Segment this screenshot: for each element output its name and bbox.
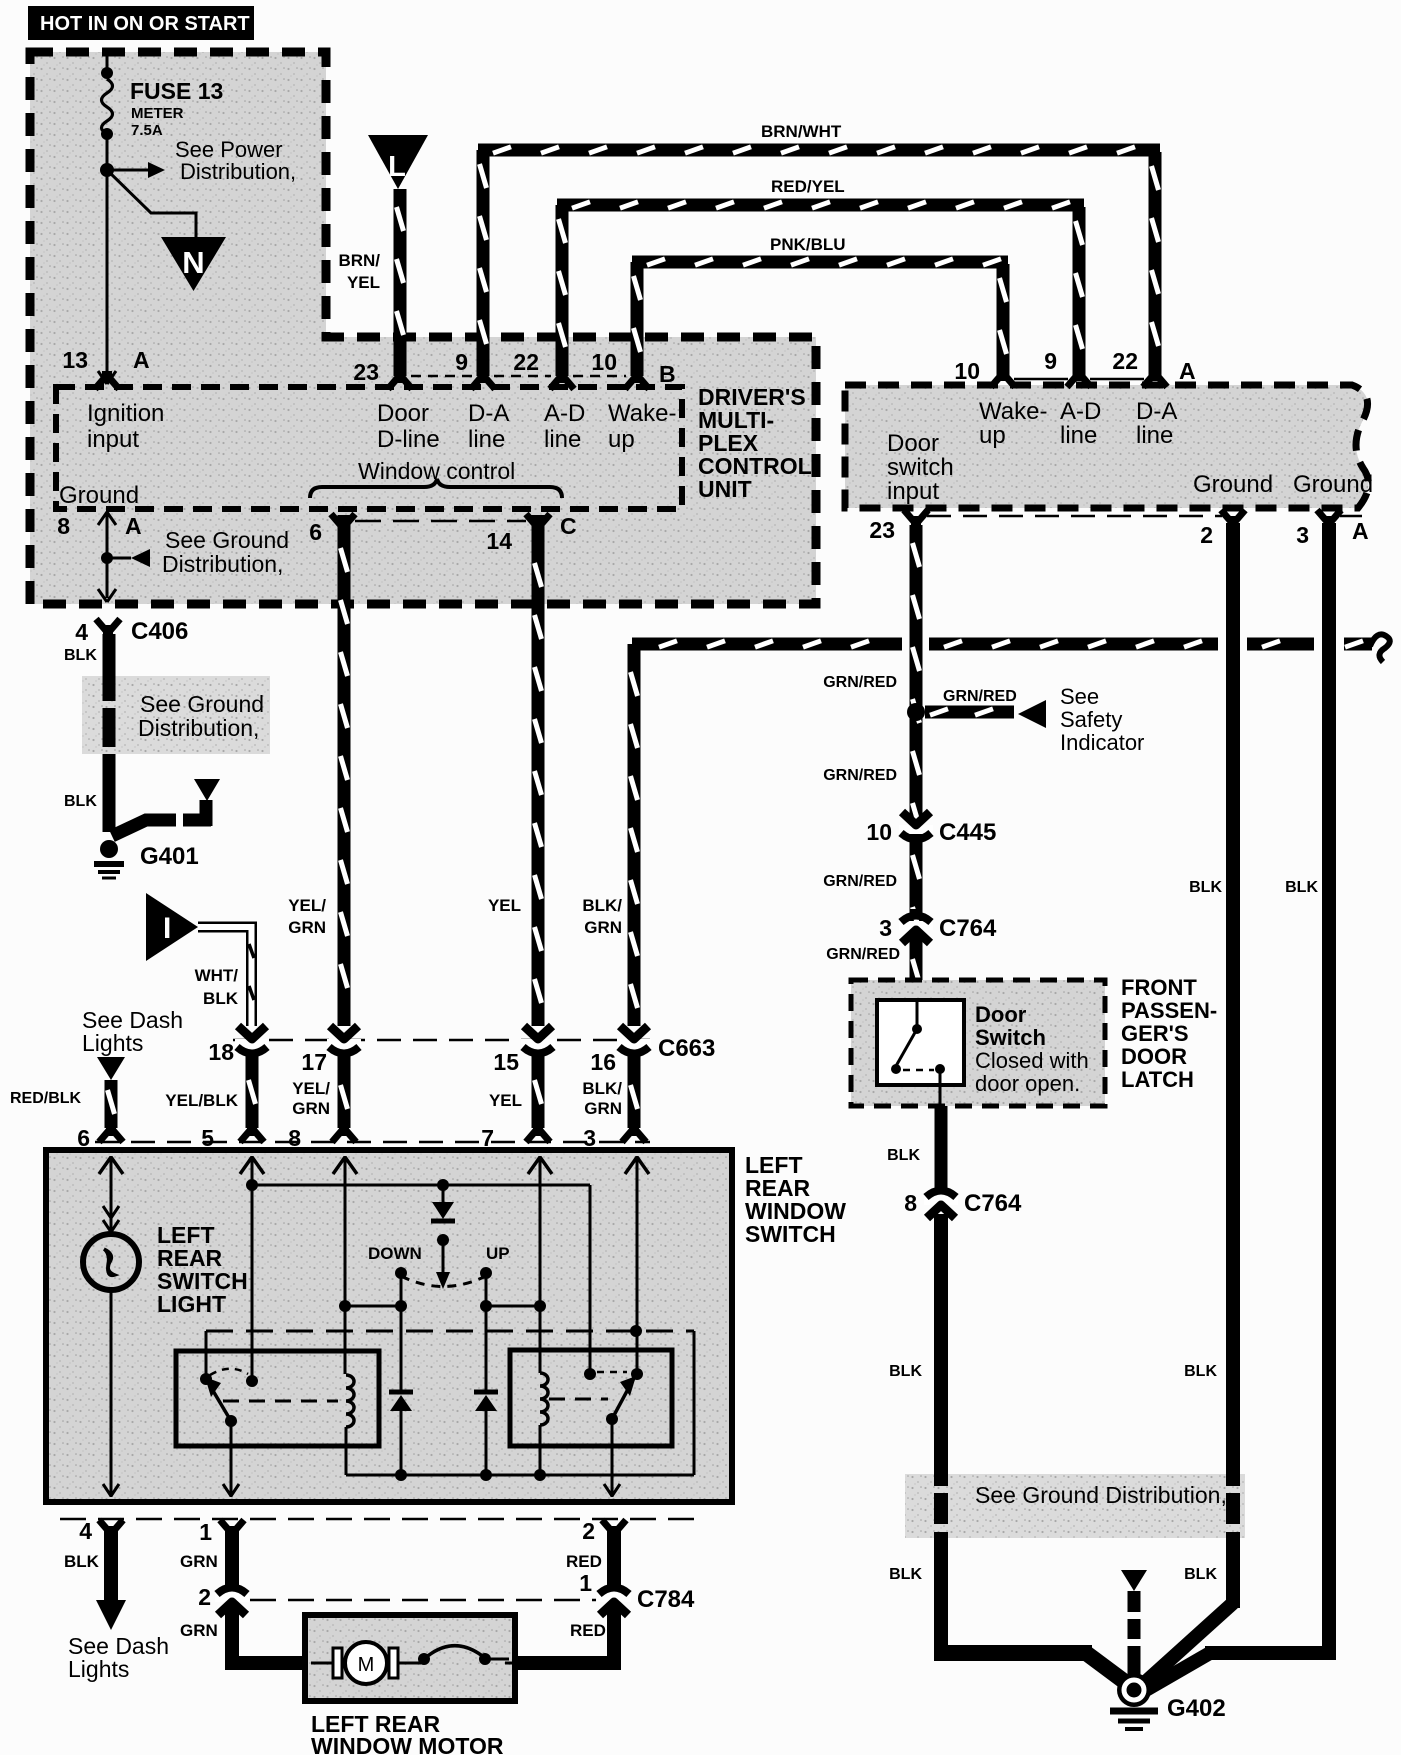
left rear window motor box [305,1615,515,1701]
ground wire below pin 8 [106,530,109,598]
label 22 (passenger) [1112,348,1138,374]
wire BLK/GRN (C663 16 to switch 3) [631,1062,638,1128]
rocker dashed arc [401,1276,486,1287]
junction dot pin3-pivot [630,1325,642,1337]
svg-text:BLK: BLK [64,1552,100,1571]
svg-text:GRN: GRN [288,918,326,937]
label 9 (driver) [455,349,468,375]
svg-text:RED: RED [566,1552,602,1571]
down relay armature arm [205,1377,231,1421]
wire fuse to ignition input [106,134,109,382]
wire YEL/GRN (pin 6 to C663 17) [341,515,348,1026]
thin link lines between top pins [411,375,626,378]
svg-text:1: 1 [199,1519,212,1545]
svg-text:Indicator: Indicator [1060,730,1144,755]
label 23 (passenger) [869,517,895,543]
return junction dots [395,1469,546,1481]
label A-D line (passenger) [1060,398,1101,449]
svg-text:door open.: door open. [975,1071,1080,1096]
switch light lamp lead (top) [103,1156,119,1233]
motor right contact lead [485,1659,515,1663]
svg-text:input: input [887,478,939,505]
svg-text:GRN: GRN [584,918,622,937]
label 7.5A [131,122,163,139]
door switch arm [896,1029,917,1066]
junction dot 4 [534,1300,546,1312]
connector N (triangle) [161,237,226,291]
label A (pin 8) [125,513,142,539]
svg-text:GRN/RED: GRN/RED [823,674,897,691]
svg-text:See Ground: See Ground [165,527,289,553]
label Ignition input [87,400,164,453]
text See Dash Lights (lower) [68,1633,169,1682]
junction dot 3 [480,1300,492,1312]
label GRN/RED (below C445) [823,873,897,890]
arrow down to C406 [98,589,116,602]
thin dashed link pin6-pinC [355,520,526,523]
label RED (below C784) [570,1621,606,1640]
label LEFT REAR WINDOW SWITCH [745,1152,846,1247]
arrow into pin 13 [98,371,116,384]
svg-text:22: 22 [1112,348,1138,374]
freewheel diode (down) [389,1306,413,1475]
label BLK (wire B mid) [1184,1363,1217,1380]
left rear window switch box [46,1150,732,1502]
junction link DOWN to coil [345,1305,401,1308]
down relay moving contact dot [225,1415,237,1427]
switch pin 2 fork [602,1520,626,1538]
svg-text:Wake-: Wake- [979,398,1047,425]
svg-text:10: 10 [591,349,617,375]
connector C663 pin 17 [327,1026,361,1062]
arrow to See Safety Indicator [1018,700,1046,728]
switch pin 5 entry arrow [240,1157,264,1174]
connection triangle (dash lights) [97,1057,125,1080]
switch pin 1 fork [220,1520,244,1538]
label C [560,513,577,539]
shaded note patch (see ground distribution left) [82,676,270,754]
svg-text:BRN/: BRN/ [338,251,380,270]
ground G402 [1110,1673,1158,1729]
svg-text:BRN/WHT: BRN/WHT [761,122,842,141]
svg-text:BLK: BLK [1184,1363,1217,1380]
svg-text:22: 22 [513,349,539,375]
svg-text:9: 9 [1044,348,1057,374]
label 16 (C663) [590,1049,616,1075]
label 10 (C445) [866,819,892,845]
switch pin 6 fork [99,1124,123,1142]
svg-text:3: 3 [1296,522,1309,548]
junction dot 2 [395,1300,407,1312]
svg-text:GRN: GRN [180,1621,218,1640]
center feed to rocker diode [442,1185,445,1203]
svg-text:Door: Door [377,400,429,427]
left pivot riser [205,1331,208,1379]
label D-A line (passenger) [1136,398,1177,449]
down relay output lead [223,1421,239,1497]
svg-text:G402: G402 [1167,1695,1226,1722]
wire BLK door latch to C764-8 [935,1106,948,1189]
svg-text:D-A: D-A [468,400,509,427]
svg-text:UNIT: UNIT [698,476,752,502]
svg-text:BLK/: BLK/ [582,896,622,915]
left relay (down relay) box [176,1351,379,1446]
svg-text:GRN/RED: GRN/RED [823,873,897,890]
label METER [131,105,184,122]
svg-text:GRN: GRN [180,1552,218,1571]
junction dot below rocker diode [437,1234,449,1246]
label 1 (switch) [199,1519,212,1545]
svg-text:line: line [468,426,505,453]
DOWN contact lead [400,1273,403,1306]
motor right brush terminal [389,1648,398,1678]
svg-text:D-A: D-A [1136,398,1177,425]
wire BLK C406 to G401 [103,634,116,832]
svg-text:YEL: YEL [489,1091,522,1110]
svg-text:C445: C445 [939,819,996,846]
passenger pin 23 fork [904,510,928,528]
connection triangle above G402 [1121,1570,1147,1591]
label GRN/RED (below junction) [823,767,897,784]
label UP [486,1244,510,1263]
wire PNK/BLU (pin 10 to passenger pin 10) [632,259,1008,377]
svg-text:SWITCH: SWITCH [745,1221,836,1247]
label C663 [658,1035,715,1062]
label DRIVER'S MULTIPLEX CONTROL UNIT [698,384,812,502]
connector C663 pin 18 [235,1026,269,1062]
switch pin 3 lead [636,1156,639,1374]
up relay pivot dot [631,1368,643,1380]
svg-text:RED/BLK: RED/BLK [10,1090,82,1107]
switch pin 8 fork [332,1124,356,1142]
label BLK (wire B lower) [1184,1566,1217,1583]
switch pin 8 entry arrow [333,1157,357,1174]
wire WHT/BLK (white wire) [198,927,254,1026]
label 15 (C663) [493,1049,519,1075]
label 18 (C663) [208,1039,234,1065]
label YEL (upper) [488,896,521,915]
wire BLK to dash lights [96,1527,126,1630]
wire RED switch to C784 [607,1527,621,1589]
fuse F13 top terminal dot [101,67,113,79]
wire GRN C784 to motor [225,1605,311,1663]
motor left brush terminal [333,1648,342,1678]
up relay armature arm [612,1376,636,1419]
switch pin 3 fork [622,1124,646,1142]
svg-text:YEL/BLK: YEL/BLK [165,1091,238,1110]
connector C784 pin 1 [597,1581,631,1615]
thin link line passenger bottom pins [927,515,1362,518]
label BLK (wire A lower) [889,1566,922,1583]
label Wake-up (passenger) [979,398,1047,449]
label C445 [939,819,996,846]
door switch input lead [916,1000,919,1029]
label A (pin 13) [133,347,150,373]
svg-text:YEL/: YEL/ [288,896,326,915]
switch top pin dashed row [95,1141,650,1144]
svg-text:LATCH: LATCH [1121,1067,1194,1092]
label 2 (switch) [582,1518,595,1544]
svg-text:BLK: BLK [889,1363,922,1380]
HOT IN ON OR START banner [28,6,254,40]
svg-text:BLK: BLK [887,1147,920,1164]
up relay output lead [604,1419,620,1497]
fuse F13 bottom terminal dot [101,128,113,140]
svg-text:B: B [659,361,676,387]
wire YEL (C663 15 to switch 7) [535,1062,542,1128]
svg-text:line: line [1136,422,1173,449]
label Door D-line [377,400,440,453]
label A (passenger bottom) [1352,518,1369,544]
svg-text:23: 23 [869,517,895,543]
thin link lines between passenger top pins [1014,378,1144,381]
label Ground (passenger, left) [1193,471,1273,498]
passenger pin 10 fork [991,369,1015,387]
label PNK/BLU [770,235,846,254]
label BLK (above G401) [64,793,97,810]
svg-text:See Ground Distribution,: See Ground Distribution, [975,1482,1227,1508]
wire BLK/GRN horizontal run (continues right, S end) [632,634,1390,662]
right relay (up relay) box [510,1350,672,1446]
svg-text:C764: C764 [964,1190,1022,1217]
svg-text:GRN/RED: GRN/RED [826,946,900,963]
front passenger's door latch shaded dashed box [851,980,1105,1106]
pin5 feed horizontal line [252,1184,590,1187]
motor switch contact dot right [479,1653,491,1665]
label YEL (lower) [489,1091,522,1110]
label RED/YEL [771,177,845,196]
label LEFT REAR SWITCH LIGHT [157,1222,248,1317]
C784 dashed link row [250,1599,596,1602]
svg-text:up: up [608,426,635,453]
svg-text:A-D: A-D [1060,398,1101,425]
wire BLK passenger pin 3 to G402 [1146,523,1336,1690]
dashed border of power-distribution + driver's multiplex unit region [30,52,816,604]
svg-text:A: A [133,347,150,373]
label DOWN [368,1244,422,1263]
label 2 (C784) [198,1584,211,1610]
label 3 (passenger) [1296,522,1309,548]
label A-D line [544,400,585,453]
svg-text:input: input [87,426,139,453]
svg-text:1: 1 [579,1570,592,1596]
label 3 (C764) [879,915,892,941]
connector C445 [899,812,933,848]
label 10 (driver) [591,349,617,375]
label GRN/RED (branch) [943,688,1017,705]
up relay rest dashed line [549,1398,608,1401]
pin 23 fork [388,371,412,389]
label B [659,361,676,387]
text See Ground Distribution (right) [975,1482,1227,1508]
shaded note band (see ground distribution right) [905,1474,1245,1538]
door switch inner box [877,1000,964,1085]
svg-text:YEL/: YEL/ [292,1079,330,1098]
label Ground (passenger, right) [1293,471,1373,498]
svg-text:DOOR: DOOR [1121,1044,1187,1069]
svg-text:14: 14 [486,528,512,554]
svg-text:YEL: YEL [488,896,521,915]
label C764 [939,915,997,942]
label 1 (C784) [579,1570,592,1596]
svg-text:GRN/RED: GRN/RED [943,688,1017,705]
down relay fixed contact dot [246,1375,258,1387]
label 17 (C663) [301,1049,327,1075]
label 10 (passenger) [954,358,980,384]
svg-text:RED/YEL: RED/YEL [771,177,845,196]
svg-text:BLK: BLK [1285,879,1318,896]
arrow to See Ground Distribution (driver unit) [107,549,150,567]
svg-text:Door: Door [887,430,939,457]
svg-text:Closed with: Closed with [975,1048,1089,1073]
svg-text:line: line [1060,422,1097,449]
svg-text:10: 10 [954,358,980,384]
connector C764 pin 8 [924,1184,958,1218]
wire YEL (pin 14 to C663 15) [535,515,542,1026]
svg-text:HOT IN ON OR START: HOT IN ON OR START [40,13,250,35]
connector C663 pin 15 [521,1026,555,1062]
label 8 [57,513,70,539]
ground G401 [94,840,124,878]
pin 6 fork [331,514,355,532]
freewheel diode (up) [474,1306,498,1475]
svg-text:L: L [388,151,406,183]
svg-text:FRONT: FRONT [1121,975,1197,1000]
svg-text:G401: G401 [140,843,199,870]
svg-text:UP: UP [486,1244,510,1263]
wire GRN switch to C784 [225,1527,239,1586]
label C764 (pin 8) [964,1190,1022,1217]
svg-text:23: 23 [353,359,379,385]
driver's multiplex control unit connector box (inner dashed box) [56,387,682,509]
svg-text:M: M [358,1654,375,1676]
label 8 (C764) [904,1190,917,1216]
up relay pivot riser [636,1331,639,1374]
passenger's multiplex control unit shaded box [845,385,1368,508]
svg-text:I: I [163,912,171,945]
switch pin 3 entry arrow [625,1157,649,1174]
label C406 [131,618,188,645]
left rear switch light (lamp) [83,1234,139,1290]
svg-text:6: 6 [77,1125,90,1151]
switch bottom pin dashed row [60,1518,694,1521]
svg-text:A: A [125,513,142,539]
label RED/BLK [10,1090,82,1107]
svg-text:Safety: Safety [1060,707,1122,732]
svg-text:GER'S: GER'S [1121,1021,1189,1046]
svg-text:BLK: BLK [64,793,97,810]
label YEL/BLK [165,1091,238,1110]
svg-text:GRN: GRN [584,1099,622,1118]
motor left lead [311,1662,337,1665]
svg-text:WINDOW MOTOR: WINDOW MOTOR [311,1733,504,1755]
label 14 [486,528,512,554]
wire BLK/GRN vertical run (to C663 pin 16) [631,644,638,1026]
motor right lead [398,1662,421,1665]
wire RED/BLK [108,1080,115,1128]
door switch dashed link [903,1069,934,1072]
label 6 (driver) [309,519,322,545]
switch pin 4 fork [99,1520,123,1538]
svg-text:3: 3 [879,915,892,941]
up relay alternate dashed link [597,1371,627,1374]
label 2 (passenger) [1200,522,1213,548]
up relay fixed contact dot [584,1368,596,1380]
svg-text:up: up [979,422,1006,449]
svg-text:switch: switch [887,454,954,481]
svg-text:BLK: BLK [1189,879,1222,896]
svg-text:Door: Door [975,1002,1027,1027]
motor M1 body [345,1642,387,1684]
up relay moving contact dot [606,1413,618,1425]
svg-text:BLK: BLK [203,989,239,1008]
label G402 [1167,1695,1226,1722]
label A (passenger top) [1179,358,1196,384]
label 22 (driver) [513,349,539,375]
svg-text:BLK: BLK [889,1566,922,1583]
switch light lamp lead (bottom) [103,1288,119,1497]
label FRONT PASSENGER'S DOOR LATCH [1121,975,1217,1092]
UP contact lead [485,1273,488,1306]
passenger pin 9 fork [1067,369,1091,387]
svg-text:FUSE 13: FUSE 13 [130,78,223,104]
label LEFT REAR WINDOW MOTOR [311,1711,504,1755]
label BLK (below C406) [64,647,97,664]
svg-text:C764: C764 [939,915,997,942]
wire from hot feed to fuse [106,52,109,75]
label 4 (C406) [75,619,88,645]
switch pin 5 lead [251,1156,254,1382]
svg-text:9: 9 [455,349,468,375]
wire BLK passenger pin 2 to G402 [1141,523,1233,1686]
svg-text:C784: C784 [637,1586,695,1613]
label 9 (passenger) [1044,348,1057,374]
switch pin 7 lead [539,1156,542,1373]
passenger pin 22 fork [1143,369,1167,387]
svg-text:line: line [544,426,581,453]
pin 14 / C fork [526,514,550,532]
passenger's multiplex control unit dashed border [845,385,1368,508]
text See Dash Lights (upper) [82,1007,183,1056]
junction dot at fuse output [100,163,114,177]
junction link UP to coil [486,1305,540,1308]
svg-text:PASSEN-: PASSEN- [1121,998,1217,1023]
label BLK/GRN (upper) [582,896,622,937]
svg-text:WHT/: WHT/ [195,966,239,985]
window control brace [310,479,562,498]
label GRN/RED (above junction) [823,674,897,691]
svg-text:LIGHT: LIGHT [157,1291,226,1317]
svg-text:3: 3 [583,1125,596,1151]
svg-text:8: 8 [57,513,70,539]
svg-text:Ground: Ground [1293,471,1373,498]
svg-text:GRN: GRN [292,1099,330,1118]
connector C784 pin 2 [215,1581,249,1615]
switch pin row labels [77,1125,596,1151]
mechanical link dashed line [206,1330,694,1333]
svg-text:DOWN: DOWN [368,1244,422,1263]
svg-text:17: 17 [301,1049,327,1075]
connector L (triangle) [368,135,428,189]
switch pin 6 entry arrow [99,1157,123,1174]
connector C406 pin 4 fork [96,619,120,637]
fuse 13 element (wavy line) [102,79,113,134]
motor switch contact dot left [418,1653,430,1665]
label BLK (passenger pin 2 wire upper) [1189,879,1222,896]
label 23 [353,359,379,385]
label G401 [140,843,199,870]
label Door Switch Closed with door open [975,1002,1089,1096]
